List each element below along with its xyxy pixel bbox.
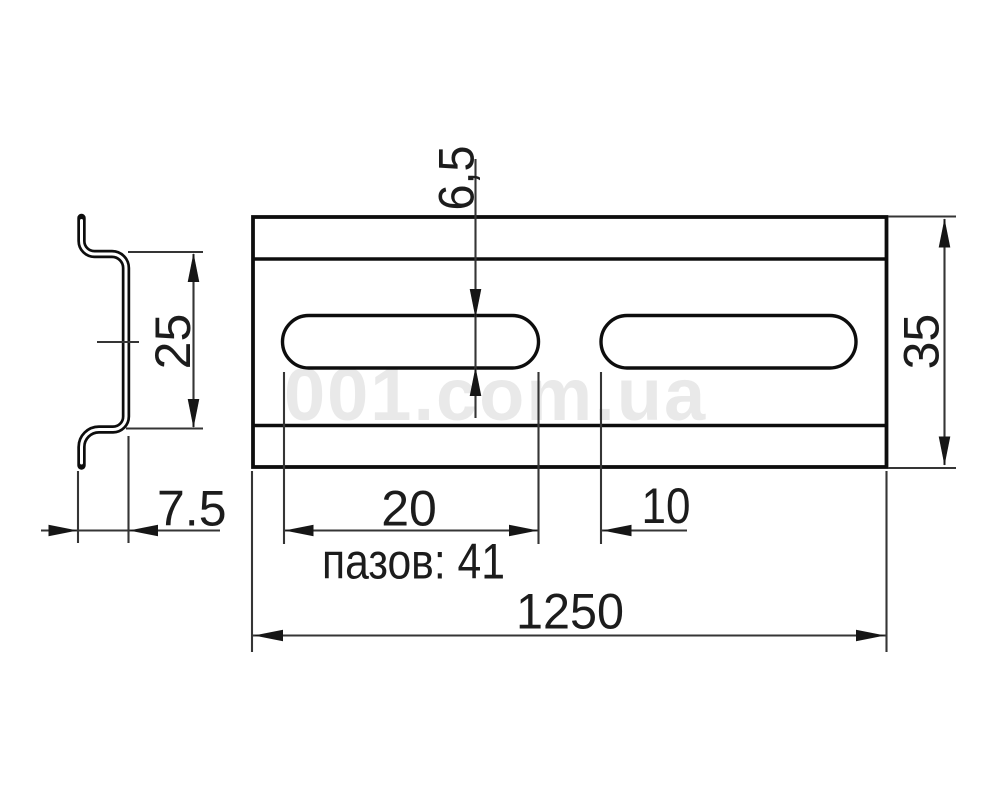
- svg-text:1250: 1250: [516, 584, 624, 640]
- svg-text:10: 10: [642, 478, 691, 534]
- svg-text:20: 20: [381, 481, 437, 537]
- svg-text:пазов: 41: пазов: 41: [322, 534, 505, 590]
- svg-text:001.com.ua: 001.com.ua: [284, 353, 707, 436]
- svg-text:6,5: 6,5: [429, 146, 485, 211]
- svg-text:25: 25: [145, 314, 201, 370]
- svg-text:7.5: 7.5: [157, 481, 227, 537]
- svg-text:35: 35: [894, 314, 950, 370]
